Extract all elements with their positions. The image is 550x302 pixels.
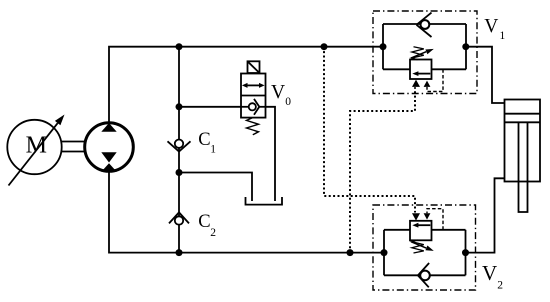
svg-text:2: 2 [497,280,503,292]
junction dot branch / drain [176,169,183,176]
svg-text:C: C [198,212,210,232]
svg-text:1: 1 [500,30,506,42]
label V1 [484,16,505,42]
V2 spring adjust arrow [411,242,434,251]
junction dot top bus / branch [176,43,183,50]
V1 spring adjust arrow [411,49,434,58]
label V2 [482,261,503,291]
pump circle [85,123,134,172]
V1 spring [412,47,424,60]
svg-text:0: 0 [285,96,291,108]
junction dot bottom bus / branch [176,249,183,256]
wire branch to V0 [179,106,241,108]
svg-text:1: 1 [210,143,216,155]
V1 loop wires [383,24,466,69]
motor M circle [7,120,61,174]
enclosure V2 (dash-dot) [373,205,476,290]
V1 check valve [417,13,432,37]
valve V0 check (bottom cell) [241,99,266,115]
valve V0 double arrow (top cell) [242,83,265,88]
svg-text:2: 2 [210,227,216,239]
junction dot branch / V0 [176,103,183,110]
enclosure V1 (dash-dot) [373,11,477,94]
label C2 [198,212,216,239]
svg-text:V: V [484,16,498,37]
svg-text:V: V [271,82,285,103]
V2 check valve [418,263,430,287]
cylinder piston [505,114,541,123]
wire V2 to cylinder bottom port [466,178,505,252]
V2 relief flow arrow [412,223,430,228]
V2 relief valve box [410,221,432,241]
valve V0 spring (bottom) [247,118,259,135]
pump triangle top [101,123,116,132]
shaft between motor and pump [62,142,86,152]
junction dot V1 left [380,43,387,50]
check valve C1 [168,140,191,152]
cylinder rod [519,122,528,212]
wire V1 to cylinder top port [466,47,505,103]
V1 pilot triangle left [412,80,420,87]
V1 relief flow arrow [412,71,430,76]
V1 relief valve box [410,60,432,80]
svg-text:V: V [482,261,497,285]
junction dot V2 left [381,249,388,256]
V2 internal pilot (dashed) [427,209,443,230]
V2 pilot triangle right [424,213,431,219]
pump triangle middle (down) [101,152,116,162]
junction dot bottom bus / pilot [347,249,354,256]
junction dot V1 right [462,43,469,50]
wire V0 outlet to tank [266,107,276,201]
svg-text:C: C [198,130,210,150]
V2 loop wires [384,230,466,275]
V1 internal pilot (dashed) [427,69,443,91]
check valve C2 [169,212,189,224]
V2 pilot triangle left [412,213,420,220]
cylinder body [505,100,541,182]
wire branch column x=179 [178,47,180,253]
V2 spring [412,240,424,253]
junction dot top bus / pilot [321,43,328,50]
tank symbol [246,197,283,205]
wire left riser and buses (pump column x=109) [109,47,384,253]
motor variable arrow [9,115,65,186]
valve V0 cell divider [241,95,266,97]
valve V0 body [241,74,266,118]
label V0 [271,82,291,108]
label C1 [198,130,216,155]
V1 pilot triangle right [424,81,431,87]
pilot line (dotted) bottom bus to V1 [350,87,415,252]
svg-text:M: M [26,132,47,158]
junction dot V2 right [462,249,469,256]
valve V0 solenoid [248,61,260,73]
wire drain branch to tank [179,173,252,202]
pump triangle bottom (up) [101,163,116,172]
pilot line (dotted) top bus to V2 [324,47,415,213]
